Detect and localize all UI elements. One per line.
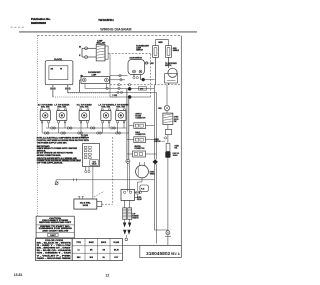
svg-text:BL: BL: [103, 257, 105, 259]
svg-text:FLUORESCENT: FLUORESCENT: [88, 72, 102, 74]
svg-text:V - VIOLET P - PINK: V - VIOLET P - PINK: [37, 255, 73, 257]
svg-text:BEFORE SERVICING UNIT: BEFORE SERVICING UNIT: [39, 222, 72, 224]
svg-text:THE POWER SUPPLY CORD SET.: THE POWER SUPPLY CORD SET.: [37, 142, 67, 144]
svg-text:WIRING DIAGRAM: WIRING DIAGRAM: [100, 28, 131, 32]
svg-text:GND - GROUND WIRE: GND - GROUND WIRE: [37, 258, 73, 260]
svg-text:SHIELD: SHIELD: [173, 50, 180, 52]
svg-text:12: 12: [106, 274, 110, 278]
svg-text:318045802: 318045802: [146, 251, 170, 257]
svg-text:DISCONNECT POWER: DISCONNECT POWER: [42, 220, 69, 222]
svg-text:BK-W: BK-W: [114, 249, 119, 251]
svg-text:COLOR CODE: COLOR CODE: [45, 240, 64, 242]
svg-text:SERVICE.: SERVICE.: [37, 150, 46, 152]
svg-text:CHECK WIRING TO POWER SUPPLY B: CHECK WIRING TO POWER SUPPLY BEFORE: [37, 148, 78, 150]
svg-text:SWITCH: SWITCH: [136, 50, 143, 52]
svg-text:TGF1015FW-1: TGF1015FW-1: [98, 18, 114, 22]
svg-text:FLUORESCENT: FLUORESCENT: [136, 46, 150, 48]
svg-text:GRD: GRD: [158, 42, 163, 44]
svg-text:BROIL: BROIL: [101, 242, 106, 244]
svg-text:R - RED Y - YELLOW: R - RED Y - YELLOW: [37, 245, 72, 247]
svg-text:L1: L1: [78, 249, 80, 251]
svg-text:15-81: 15-81: [14, 273, 23, 277]
svg-text:REV. A: REV. A: [171, 252, 180, 256]
